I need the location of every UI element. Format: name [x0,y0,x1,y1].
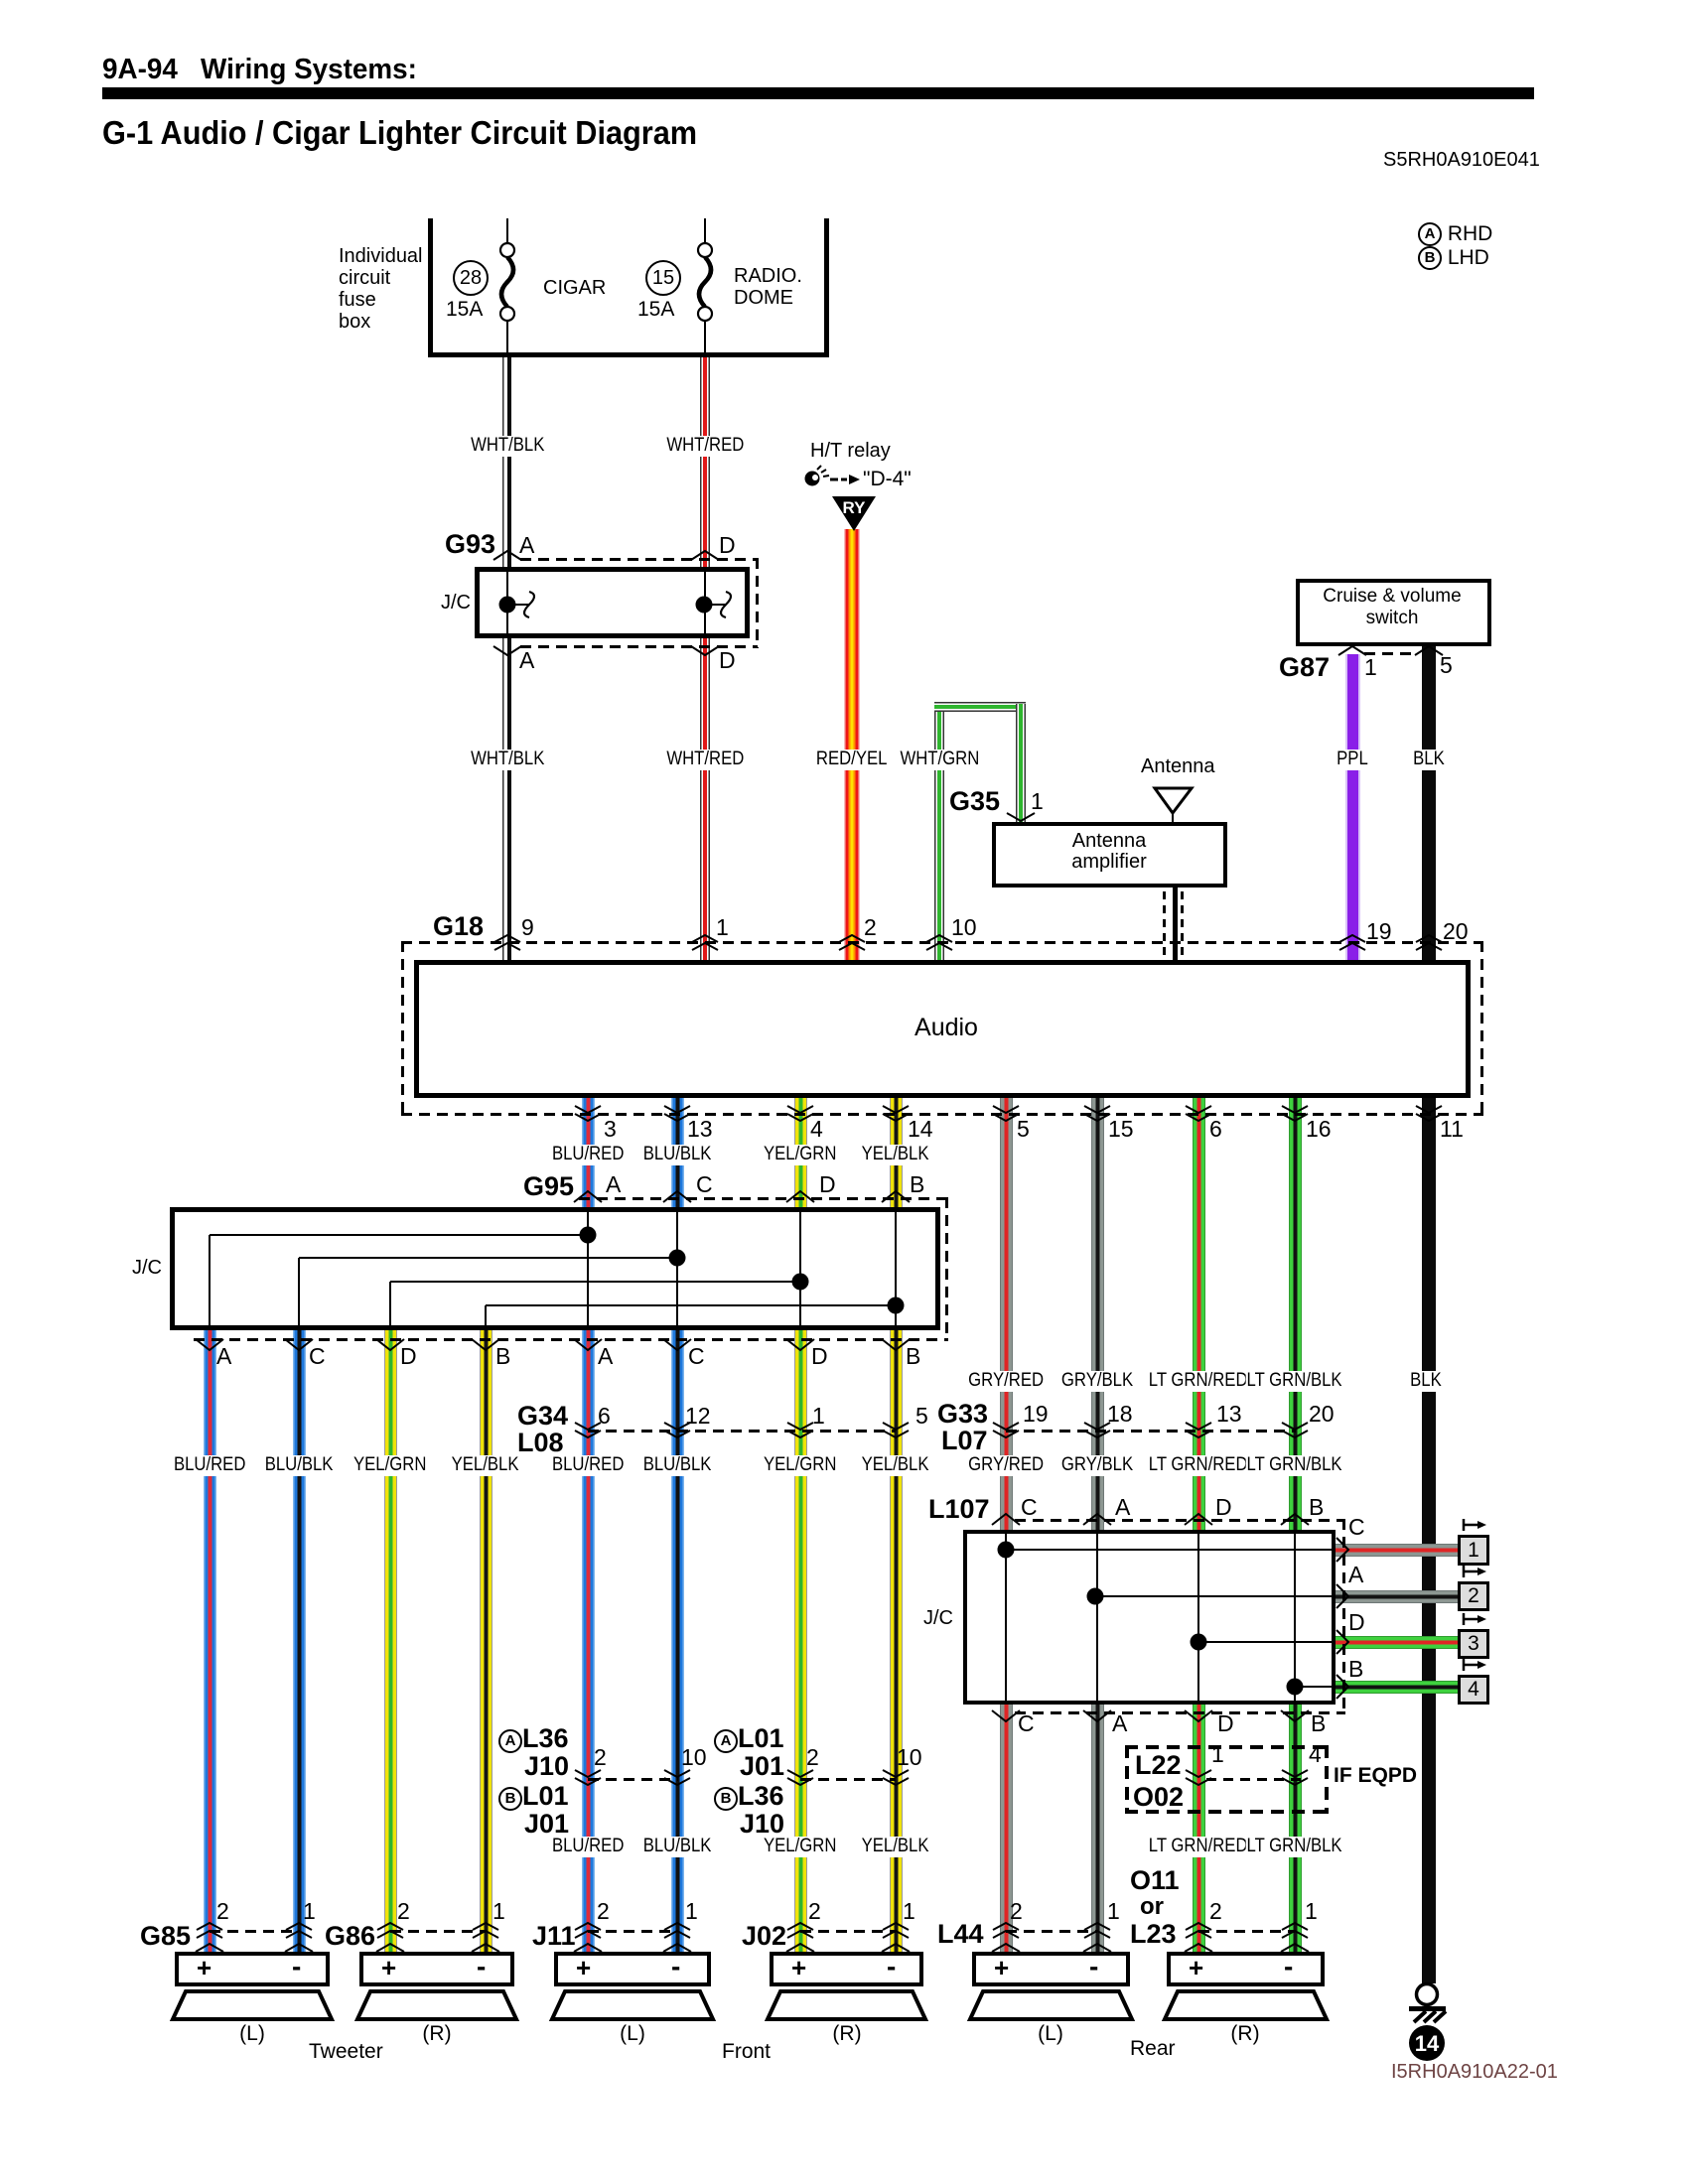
svg-text:14: 14 [1415,2031,1440,2056]
svg-text:RY: RY [843,498,867,517]
